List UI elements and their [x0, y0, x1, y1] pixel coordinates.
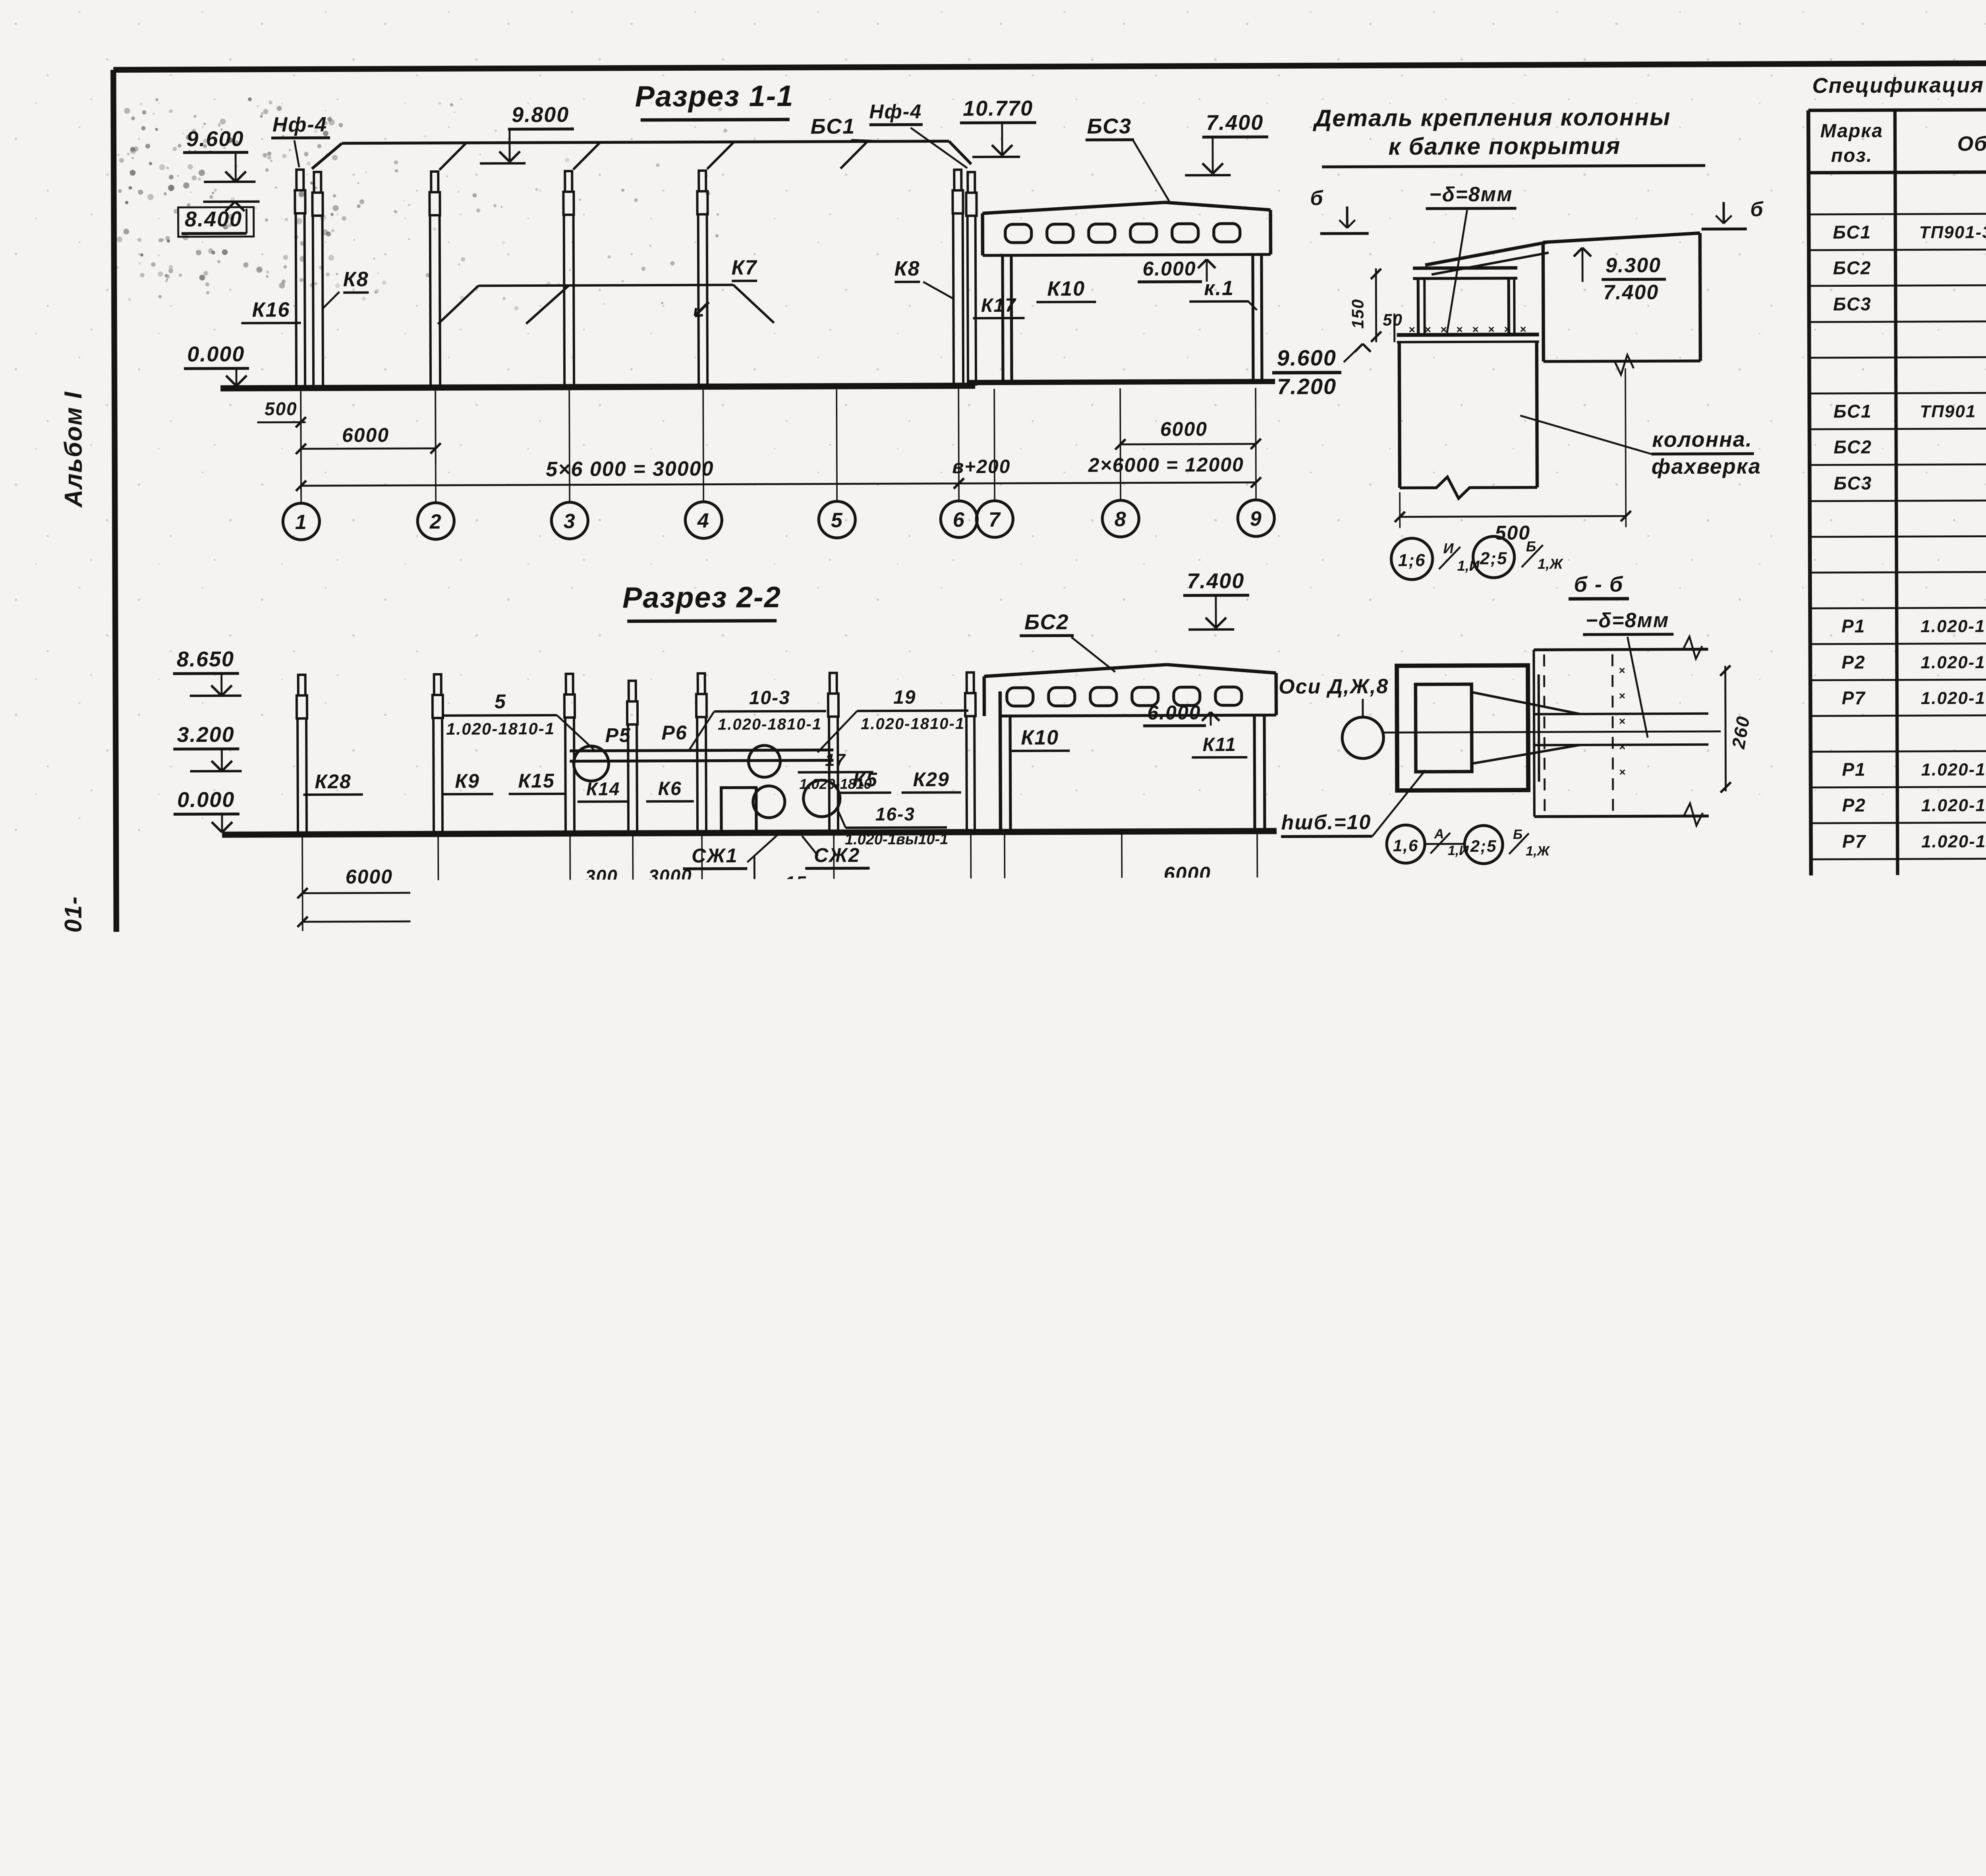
section 3-3 tall building roof beams BS1 with ovals — [593, 1116, 724, 1129]
svg-text:Разрез 1-1: Разрез 1-1 — [635, 79, 794, 113]
spec row line — [1809, 319, 1986, 322]
section 1-1 dimension 2x6000=12000 — [959, 483, 1256, 484]
svg-text:СЖ1: СЖ1 — [692, 844, 738, 867]
section 3-3 dimension 2x6000=12000 — [307, 1430, 572, 1431]
svg-text:К17: К17 — [981, 295, 1016, 316]
svg-text:1.020-1810-1: 1.020-1810-1 — [861, 715, 965, 733]
spec row line — [1810, 427, 1986, 429]
svg-text:×: × — [1163, 1582, 1170, 1595]
detail a-a top boundary line with break — [880, 1487, 1011, 1487]
svg-text:2×6000 = 12000: 2×6000 = 12000 — [1088, 454, 1244, 476]
svg-text:2;5: 2;5 — [1470, 837, 1497, 855]
svg-text:Р2: Р2 — [356, 1148, 383, 1172]
spec row line — [1809, 283, 1986, 286]
spec row line — [1812, 1287, 1986, 1289]
svg-text:×: × — [1183, 1582, 1190, 1595]
axis bubble A — [288, 1448, 325, 1484]
axis bubble 5 section 2-2 — [816, 936, 852, 973]
svg-text:колонны: колонны — [1174, 1202, 1271, 1226]
svg-text:×: × — [1619, 664, 1625, 677]
svg-text:10-3: 10-3 — [749, 687, 790, 708]
svg-text:-0.150: -0.150 — [1182, 1227, 1243, 1250]
svg-text:Р5: Р5 — [605, 724, 631, 746]
svg-text:1.020-1в|0-1: 1.020-1в|0-1 — [174, 1546, 260, 1563]
svg-text:1.020-1. вып. 6-2: 1.020-1. вып. 6-2 — [1922, 1189, 1986, 1209]
dimension 50 foundation — [1672, 1241, 1674, 1264]
section 2-2 dimension 300 — [570, 891, 633, 893]
svg-text:3: 3 — [768, 1179, 780, 1202]
svg-text:3,200: 3,200 — [641, 1584, 697, 1607]
axis bubble D — [705, 1446, 742, 1482]
spec row line — [1813, 1466, 1986, 1468]
svg-text:А: А — [301, 1804, 317, 1827]
column axis 4 (dashed lower) — [699, 171, 706, 191]
svg-text:10-3: 10-3 — [197, 1517, 236, 1538]
svg-text:МС14: МС14 — [1830, 1475, 1882, 1496]
svg-text:Кузнецов: Кузнецов — [1886, 1749, 1960, 1766]
elevation arrow 9.300 7.400 — [1574, 248, 1582, 257]
detail a-a concrete pad — [946, 1528, 1130, 1710]
svg-text:1.020-1 вып. 3-1: 1.020-1 вып. 3-1 — [1922, 939, 1986, 959]
svg-text:А: А — [298, 1455, 315, 1478]
svg-text:К2: К2 — [624, 1243, 649, 1265]
right annex beam BS3 with ovals — [983, 203, 1165, 214]
section 1-1 dimension row 5x6000=30000 — [301, 483, 959, 486]
spec row line — [1811, 928, 1986, 931]
spec row line — [1809, 247, 1986, 250]
svg-text:К10: К10 — [1047, 277, 1085, 300]
section 3-3 dimension 6000 A-B — [307, 1403, 439, 1404]
svg-text:1.020-1810-1: 1.020-1810-1 — [447, 1602, 537, 1619]
spec row line — [1810, 677, 1986, 680]
svg-text:Р2: Р2 — [505, 1534, 531, 1557]
detail roof sloped beam top chord — [1425, 242, 1547, 265]
spec row line — [1812, 1179, 1986, 1181]
crane beam arrow near K7 — [695, 302, 709, 316]
svg-text:ИНВ. № ПОДЛ.: ИНВ. № ПОДЛ. — [65, 1728, 79, 1820]
svg-text:9: 9 — [1250, 508, 1262, 531]
axis bubble Zh — [971, 1445, 1008, 1482]
svg-text:1.020-1810-1: 1.020-1810-1 — [446, 719, 555, 738]
svg-text:К22: К22 — [325, 1283, 361, 1306]
svg-text:СЖ2: СЖ2 — [1834, 1153, 1877, 1173]
svg-text:МС3: МС3 — [1835, 1332, 1876, 1353]
title block privyazan box — [1518, 1682, 1808, 1812]
svg-text:200-: 200- — [854, 1561, 874, 1600]
svg-text:СЖ3: СЖ3 — [1834, 1189, 1877, 1209]
svg-text:2.460-2 вып1: 2.460-2 вып1 — [997, 1211, 1117, 1231]
svg-text:6000: 6000 — [1011, 1378, 1057, 1399]
svg-text:×: × — [1173, 1641, 1180, 1654]
svg-text:К15: К15 — [518, 770, 555, 792]
svg-text:×: × — [937, 1617, 944, 1630]
axis bubble V s44 — [557, 1796, 592, 1831]
axis bubble 9 section 2-2 — [1239, 935, 1276, 972]
svg-text:К10: К10 — [1021, 726, 1059, 749]
svg-text:К7: К7 — [804, 1240, 829, 1262]
svg-text:2: 2 — [432, 946, 445, 969]
svg-text:заполнителе марки: заполнителе марки — [1542, 1315, 1771, 1340]
svg-text:Альбом I: Альбом I — [60, 391, 87, 508]
detail roof column body — [1399, 342, 1400, 488]
svg-text:а: а — [1270, 1109, 1282, 1131]
svg-text:Е: Е — [849, 1453, 864, 1476]
svg-text:6,650: 6,650 — [637, 1515, 692, 1538]
svg-text:1.020-1 вып. 3-5: 1.020-1 вып. 3-5 — [1921, 688, 1986, 708]
axis bubble 7 — [976, 501, 1013, 537]
detail a-a break right — [1225, 1585, 1234, 1614]
section 3-3 column K1 axis I — [1092, 1155, 1092, 1336]
svg-text:Р7: Р7 — [1842, 687, 1866, 708]
svg-text:Оси Д,Ж,8: Оси Д,Ж,8 — [1279, 675, 1389, 699]
section 2-2 column K5 axis 5 — [830, 673, 837, 693]
section 1-1 axis extension lines — [300, 391, 302, 503]
svg-text:Разрез 2-2: Разрез 2-2 — [622, 581, 781, 614]
axis bubble 4 — [685, 502, 722, 538]
detail foundation slab — [1263, 1241, 1648, 1265]
svg-text:×: × — [1163, 1642, 1170, 1655]
callout circle 17 — [753, 786, 785, 818]
svg-text:×: × — [896, 1584, 903, 1597]
section 3-3 dimension 6000 right — [989, 1400, 1097, 1403]
svg-text:К29: К29 — [913, 768, 950, 790]
svg-text:БС1: БС1 — [675, 1075, 718, 1098]
svg-text:1.020-1 вып. 3-1: 1.020-1 вып. 3-1 — [1922, 1010, 1986, 1030]
callout circle low building — [425, 1221, 466, 1262]
svg-text:16-3: 16-3 — [875, 804, 915, 824]
svg-text:Р6: Р6 — [662, 722, 688, 744]
svg-text:5: 5 — [495, 690, 506, 712]
spec row line — [1809, 391, 1986, 394]
section 4-4 axis extension lines — [308, 1723, 310, 1799]
section 2-2 column K28 axis 1 — [298, 675, 305, 695]
svg-text:19: 19 — [893, 687, 916, 708]
svg-text:Бетон на мелком: Бетон на мелком — [1551, 1290, 1753, 1314]
detail b-b dashed studs — [1544, 654, 1545, 813]
svg-text:6000: 6000 — [346, 865, 393, 888]
svg-text:1.020-1810-1: 1.020-1810-1 — [718, 716, 822, 733]
svg-text:1.020-1. вып. 10-1: 1.020-1. вып. 10-1 — [1923, 1404, 1986, 1424]
section 3-3 dimension 4x6000=24000 — [602, 1428, 1097, 1430]
svg-text:1.020-1 вып. 3-5: 1.020-1 вып. 3-5 — [1921, 652, 1986, 672]
section 2-2 beams R5 R6 — [570, 750, 833, 751]
svg-text:6.650: 6.650 — [178, 1145, 236, 1169]
svg-text:×: × — [937, 1658, 945, 1671]
svg-text:К8: К8 — [894, 257, 920, 280]
svg-text:М150: М150 — [1629, 1341, 1685, 1365]
svg-text:×: × — [1488, 323, 1494, 336]
axis bubble 1 section 2-2 — [284, 938, 321, 975]
title block signature table — [1808, 1563, 1986, 1811]
axis bubble 2 section 2-2 — [420, 938, 457, 975]
svg-text:×: × — [1619, 766, 1625, 778]
svg-text:×: × — [1132, 1637, 1139, 1650]
svg-text:1.020-1. вып. 10-1: 1.020-1. вып. 10-1 — [1924, 1511, 1986, 1531]
svg-text:1,И: 1,И — [836, 1544, 860, 1560]
svg-text:БС3: БС3 — [1834, 473, 1872, 493]
axis bubble 9 — [1238, 500, 1274, 537]
svg-text:Р1: Р1 — [1842, 759, 1866, 780]
svg-text:поз.: поз. — [1831, 145, 1873, 166]
axis bubble 8 — [1102, 500, 1139, 537]
svg-text:К14: К14 — [586, 778, 620, 799]
svg-text:Шапиро: Шапиро — [1886, 1770, 1950, 1788]
section 2-2 annex roof beam BS2 with ovals — [984, 665, 1167, 677]
section 1-1 dimension 6000 axes 8-9 — [1121, 444, 1256, 444]
spec row line — [1811, 964, 1986, 967]
svg-text:4: 4 — [696, 945, 709, 968]
spec row line — [1810, 641, 1986, 644]
svg-text:колонна.: колонна. — [1652, 427, 1752, 452]
svg-text:И: И — [1090, 1452, 1105, 1475]
svg-text:ГЛ.КОНСТ.: ГЛ.КОНСТ. — [1812, 1771, 1889, 1788]
svg-text:3.200: 3.200 — [177, 723, 235, 747]
axis bubble G — [590, 1446, 627, 1483]
dimension 200 vertical — [853, 1538, 856, 1621]
svg-text:Р3: Р3 — [1843, 902, 1866, 923]
column K8 axis 1 — [314, 172, 321, 193]
section 1-1 upper floor line axes 7-9 — [967, 382, 1275, 383]
svg-text:×: × — [1520, 323, 1526, 335]
column K17 axis 6-7 (fachwerk) — [968, 172, 975, 193]
axis bubble 3 — [551, 502, 588, 539]
svg-text:8.400: 8.400 — [956, 1151, 1014, 1175]
svg-text:10.770: 10.770 — [963, 97, 1033, 121]
svg-text:ГИП: ГИП — [1812, 1750, 1842, 1766]
section 4-4 ground line — [205, 1719, 622, 1721]
svg-text:×: × — [1440, 323, 1447, 336]
svg-text:1.020-1вы10-1: 1.020-1вы10-1 — [845, 831, 948, 848]
svg-text:Ж: Ж — [978, 1453, 1000, 1476]
section 2-2 annex column K10 — [1000, 691, 1001, 832]
svg-text:К9: К9 — [455, 770, 480, 792]
svg-text:СТ. ИНЖ.: СТ. ИНЖ. — [1812, 1728, 1878, 1745]
svg-text:Р7: Р7 — [1842, 831, 1866, 851]
svg-text:БС2: БС2 — [1833, 257, 1872, 278]
svg-text:БС1: БС1 — [810, 114, 855, 138]
axis bubble V — [554, 1447, 591, 1483]
dimension 50 detail — [1393, 314, 1395, 342]
svg-text:6000: 6000 — [342, 424, 389, 446]
svg-text:БС1: БС1 — [1833, 222, 1871, 242]
callout circle at I top — [1100, 1114, 1149, 1164]
svg-text:×: × — [937, 1638, 944, 1651]
svg-text:9.600: 9.600 — [1277, 345, 1337, 371]
section 2-2 dimension 6000 axes 1-2 — [303, 893, 439, 893]
svg-text:9: 9 — [1252, 943, 1264, 966]
svg-text:2;5: 2;5 — [777, 1601, 807, 1621]
svg-text:Красавин: Красавин — [1887, 1791, 1962, 1809]
svg-text:2: 2 — [429, 510, 442, 533]
svg-text:Р2: Р2 — [1842, 795, 1866, 815]
axis bubble 6 section 2-2 — [953, 936, 989, 973]
svg-text:δ+δ+220: δ+δ+220 — [562, 1398, 648, 1421]
svg-text:Н.КОНТР: Н.КОНТР — [1812, 1685, 1878, 1702]
svg-text:2.460-2 вып.1: 2.460-2 вып.1 — [711, 1209, 837, 1229]
axis bubble 7 section 2-2 — [989, 936, 1025, 973]
axis bubble 8 section 2-2 — [1104, 936, 1140, 972]
section 4-4 dimension 6000 — [309, 1766, 440, 1766]
detail roof column cap plate — [1397, 334, 1539, 335]
spec row line — [1812, 1143, 1986, 1146]
svg-text:1.020-1 вып. 3-1: 1.020-1 вып. 3-1 — [1922, 975, 1986, 994]
section 4-4 mid beam R4 right — [448, 1643, 574, 1643]
svg-text:×: × — [1173, 1582, 1180, 1595]
svg-text:6000: 6000 — [1164, 863, 1211, 885]
sheet bottom scan line — [226, 1831, 1986, 1843]
svg-text:к балке покрытия: к балке покрытия — [1388, 133, 1621, 160]
svg-text:Ж: Ж — [1029, 1784, 1051, 1807]
svg-text:−0,100: −0,100 — [1630, 1181, 1699, 1204]
detail roof dimension 500 — [1399, 492, 1401, 528]
section 2-2 dimension 3000 — [633, 891, 702, 893]
svg-text:×: × — [1619, 690, 1625, 702]
detail a-a centre vertical axis — [1039, 1480, 1040, 1721]
sheet frame left border — [113, 70, 119, 1825]
svg-text:0.000: 0.000 — [177, 788, 235, 812]
svg-text:5×6 000 = 30000: 5×6 000 = 30000 — [527, 894, 695, 918]
spec row line — [1811, 785, 1986, 787]
detail foundation dashed embeds — [1375, 1207, 1409, 1239]
svg-text:БС3: БС3 — [1087, 114, 1132, 138]
spec row line — [1811, 892, 1986, 895]
svg-text:4×6000 = 24000: 4×6000 = 24000 — [750, 1401, 906, 1423]
svg-text:МС13: МС13 — [1830, 1440, 1882, 1460]
svg-text:к25: к25 — [267, 1669, 299, 1690]
section 4-4 roof beams R2 — [299, 1556, 582, 1557]
detail b-b column box inner — [1416, 684, 1472, 772]
spec row line — [1811, 857, 1986, 859]
detail a-a right anchor plate — [1159, 1593, 1202, 1637]
svg-text:К28: К28 — [315, 770, 352, 793]
svg-text:4: 4 — [880, 1278, 892, 1300]
svg-text:×: × — [937, 1596, 944, 1610]
svg-text:ВЗАМ. ИНВ. №: ВЗАМ. ИНВ. № — [63, 1447, 79, 1546]
svg-text:Г: Г — [602, 1454, 616, 1477]
axis bubble B s44 — [423, 1797, 458, 1832]
svg-text:8.400: 8.400 — [185, 207, 242, 232]
axis bubble I — [1079, 1445, 1115, 1481]
svg-text:7.400: 7.400 — [1206, 111, 1263, 135]
callout circle 2,5 b-b — [1464, 826, 1503, 864]
right annex parapet axis 7 — [983, 213, 983, 382]
elevation mark -0.150 arrow — [1229, 1251, 1231, 1263]
svg-text:ИНВ. №: ИНВ. № — [1528, 1792, 1586, 1809]
svg-text:Кузнецов: Кузнецов — [1886, 1684, 1960, 1702]
axis bubble 2 — [417, 503, 454, 539]
section 3-3 column K2 axis G — [597, 1157, 597, 1338]
svg-text:3: 3 — [564, 510, 576, 533]
svg-text:Р6: Р6 — [1843, 1009, 1867, 1030]
callout circle 1:6 — [771, 1525, 814, 1568]
section 4-4 interior divider — [373, 1648, 375, 1720]
axis circle b-b — [1342, 717, 1383, 759]
column K16 axis 1 (fachwerk) — [296, 170, 303, 190]
svg-text:Браннина: Браннина — [1886, 1727, 1964, 1745]
spec row line — [1810, 570, 1986, 573]
svg-text:Спецификация к схеме распол: Спецификация к схеме расположения коло ’… — [1812, 71, 1986, 97]
svg-text:Типовой проект 901-: Типовой проект 901- — [60, 896, 87, 1162]
svg-text:300: 300 — [585, 866, 618, 886]
callout circle 16-3 — [804, 780, 840, 816]
svg-text:6.000: 6.000 — [1147, 701, 1201, 724]
svg-text:7: 7 — [1001, 944, 1013, 967]
svg-text:2;5: 2;5 — [1480, 549, 1508, 568]
svg-text:17: 17 — [825, 750, 846, 770]
svg-text:7.400: 7.400 — [1187, 569, 1244, 593]
spec row line — [1812, 1215, 1986, 1218]
svg-text:8: 8 — [1115, 508, 1127, 531]
svg-text:Р4: Р4 — [518, 1218, 544, 1241]
spec row line — [1813, 1502, 1986, 1504]
callout circle at I bottom — [1100, 1307, 1149, 1356]
svg-text:СЖЗ: СЖЗ — [315, 1661, 361, 1682]
svg-text:6000: 6000 — [351, 1375, 398, 1397]
svg-text:0.000: 0.000 — [187, 342, 245, 367]
svg-text:СЖ2: СЖ2 — [384, 1661, 429, 1682]
axis bubble B — [420, 1447, 457, 1484]
svg-text:9.800: 9.800 — [1068, 1060, 1126, 1085]
svg-text:8.650: 8.650 — [177, 647, 234, 672]
section 2-2 annex column K14 right — [1254, 715, 1255, 831]
detail roof seat plates — [1413, 266, 1517, 270]
section 3-3 low building roof beams R2 — [297, 1175, 581, 1176]
svg-text:×: × — [885, 1584, 893, 1597]
svg-text:в+200: в+200 — [991, 895, 1049, 916]
svg-text:×: × — [1408, 323, 1415, 336]
svg-text:1.020-1 вып. 3-5: 1.020-1 вып. 3-5 — [1921, 795, 1986, 815]
callout circle bottom mid — [421, 1703, 460, 1743]
svg-text:ПРОВЕР: ПРОВЕР — [1812, 1706, 1876, 1724]
section 2-2 column K14 — [629, 681, 636, 701]
svg-text:8: 8 — [1116, 943, 1128, 966]
right annex column K1 — [1253, 255, 1253, 382]
section 3-3 axis extension lines — [306, 1341, 308, 1448]
svg-text:БС3: БС3 — [1833, 293, 1872, 314]
svg-text:3.200: 3.200 — [179, 1227, 236, 1251]
svg-text:Д: Д — [714, 1453, 732, 1476]
spec row line — [1811, 820, 1986, 823]
svg-text:1;6: 1;6 — [778, 1537, 807, 1558]
spec table outer grid — [1808, 108, 1986, 110]
svg-text:×: × — [1132, 1575, 1139, 1588]
section 2-2 column K6 axis 4 — [698, 674, 705, 694]
section 3-3 column K7 axis E — [851, 1156, 852, 1336]
section 2-2 dimension row 5x6000 — [303, 919, 971, 922]
svg-text:1,6: 1,6 — [1393, 836, 1419, 855]
section 2-2 column K9 axis 2 — [434, 674, 441, 695]
section 3-3 column K19 axis V — [567, 1183, 568, 1338]
callout circle top left — [285, 1544, 325, 1583]
section 1-1 ground line — [220, 386, 975, 388]
spec row line — [1813, 1430, 1986, 1432]
dimension 260 b-b — [1725, 666, 1726, 791]
svg-text:в+200: в+200 — [952, 456, 1010, 478]
svg-text:1.020-1. вып. 10-1: 1.020-1. вып. 10-1 — [1923, 1440, 1986, 1460]
svg-text:2×6000 = 12000: 2×6000 = 12000 — [1069, 893, 1225, 915]
svg-text:Разрез 3-3: Разрез 3-3 — [598, 1040, 753, 1072]
section marker b right — [1723, 202, 1725, 224]
svg-text:4: 4 — [697, 510, 710, 533]
callout circle top mid — [420, 1543, 460, 1583]
detail foundation anchor bolt left — [1314, 1195, 1316, 1271]
sheet frame top border — [113, 61, 1986, 70]
svg-text:3000: 3000 — [648, 866, 692, 886]
svg-text:×: × — [1619, 741, 1625, 753]
axis bubble E — [838, 1446, 875, 1482]
svg-text:1.020-1. вып. 6-2: 1.020-1. вып. 6-2 — [1922, 1118, 1986, 1138]
svg-text:Р2: Р2 — [507, 1148, 534, 1171]
